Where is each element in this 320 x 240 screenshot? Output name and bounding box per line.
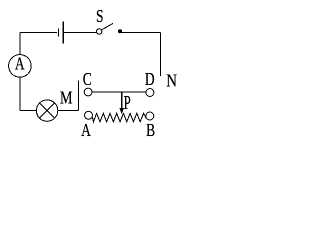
terminal C circle [84,88,92,96]
wire dot to top-right corner [120,31,160,33]
svg-text:D: D [145,70,155,89]
svg-text:B: B [146,122,155,141]
wire battery to switch [64,32,96,34]
wire N right vertical free end [159,32,161,75]
svg-text:P: P [124,91,131,113]
switch S blade [101,23,113,30]
battery B1 short plate [58,29,60,37]
wire lamp to riser [58,110,79,112]
svg-text:M: M [60,89,73,108]
wire left vertical lower [19,77,21,110]
svg-text:A: A [81,121,91,140]
terminal B circle [146,112,154,120]
lamp M cross diagonal 1 [40,103,55,118]
wire rheostat bar C to D [92,91,146,93]
svg-text:N: N [166,71,177,90]
wiper P shaft [121,92,123,109]
wire left vertical upper [19,33,21,55]
resistor element zigzag [93,113,147,122]
wire riser free end near C [77,81,79,111]
lamp M cross diagonal 2 [40,103,55,118]
battery B1 long plate [62,22,64,44]
wire bottom-left horizontal [20,110,37,112]
terminal A circle [85,111,93,119]
switch S pivot circle [97,29,102,34]
ammeter A1 circle [9,55,32,78]
svg-text:A: A [15,55,25,74]
terminal D circle [146,89,154,97]
node junction dot [118,29,122,33]
lamp M circle [36,100,57,121]
wiper P arrowhead [119,108,124,114]
svg-text:S: S [96,7,104,26]
wire top-left horizontal [20,32,57,34]
svg-text:C: C [83,70,92,89]
